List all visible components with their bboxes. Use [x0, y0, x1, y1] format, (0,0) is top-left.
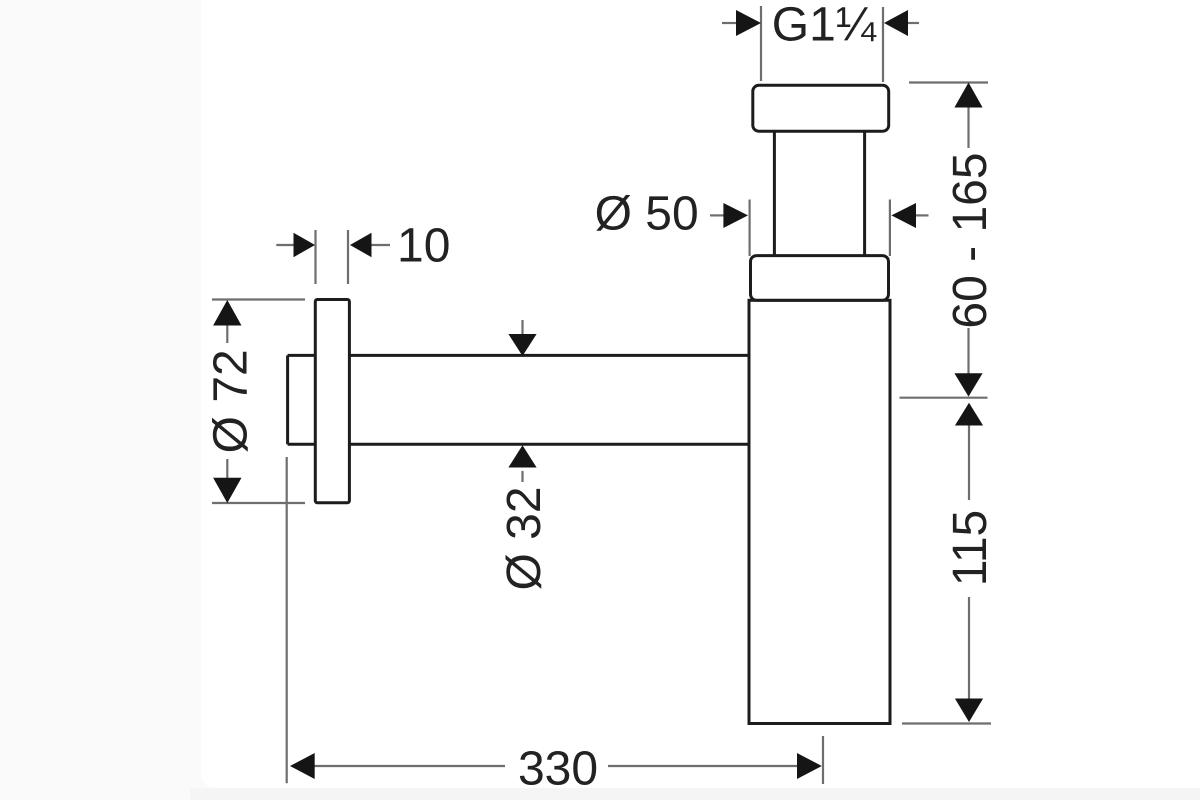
svg-text:10: 10 — [397, 219, 450, 272]
svg-text:Ø 72: Ø 72 — [205, 349, 258, 453]
svg-text:60 - 165: 60 - 165 — [944, 152, 997, 328]
svg-text:Ø 32: Ø 32 — [498, 486, 551, 590]
svg-text:330: 330 — [518, 743, 598, 796]
svg-text:115: 115 — [944, 510, 997, 587]
svg-text:Ø 50: Ø 50 — [595, 188, 699, 241]
svg-text:G1¼: G1¼ — [772, 0, 877, 51]
